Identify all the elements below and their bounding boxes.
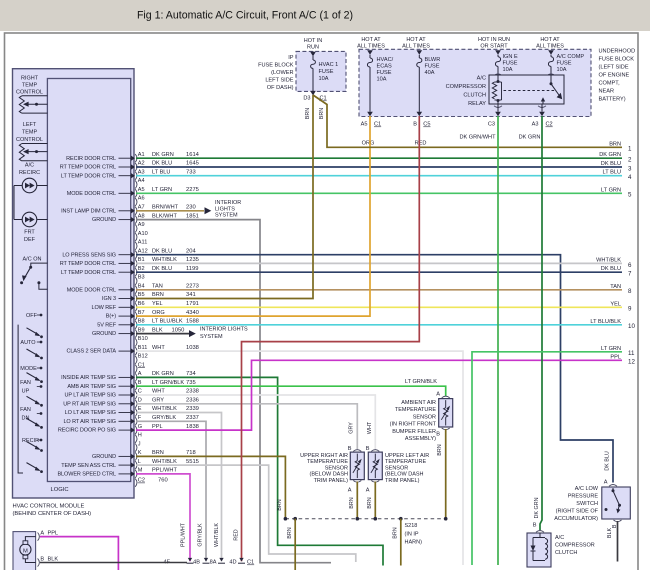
wire BRN upper left sensor to splice [374, 482, 376, 519]
module pin B10 [135, 338, 137, 346]
svg-text:BRN: BRN [367, 497, 373, 508]
module pin M PPL/WHT [131, 471, 135, 476]
splice junction dot x=445.7 [444, 517, 448, 521]
pin 8A end arrow [219, 558, 223, 562]
svg-text:A/C: A/C [555, 535, 564, 541]
svg-text:RECIR DOOR CTRL: RECIR DOOR CTRL [66, 156, 116, 162]
relay pin arc A3 [538, 106, 546, 108]
wire B7 ORG 4340 from HVAC/ECAS fuse [136, 116, 370, 316]
svg-text:HOT IN RUN: HOT IN RUN [478, 37, 510, 43]
svg-text:230: 230 [186, 205, 196, 211]
module pin B7 ORG 4340 [131, 313, 135, 318]
svg-text:CLUTCH: CLUTCH [555, 550, 577, 556]
module pin F GRY/BLK 2337 [131, 419, 135, 424]
svg-text:GRY/BLK: GRY/BLK [152, 415, 176, 421]
svg-text:B: B [413, 122, 417, 128]
svg-text:LT BLU: LT BLU [603, 170, 621, 176]
svg-text:(BELOW DASH: (BELOW DASH [385, 472, 424, 478]
svg-text:A1: A1 [138, 152, 145, 158]
svg-text:9: 9 [628, 306, 632, 313]
underhood block bottom pin arrow x=370 [367, 112, 373, 117]
svg-text:HVAC 1: HVAC 1 [319, 62, 339, 68]
indicator lamp A/C RECIRC [22, 178, 37, 193]
fuse HVAC 1 10A [312, 56, 314, 60]
wire B5 BRN 341 from IP fuse D3 [136, 95, 313, 299]
svg-text:UP RT AIR TEMP SIG: UP RT AIR TEMP SIG [63, 401, 116, 407]
svg-text:12: 12 [628, 359, 635, 366]
svg-text:LO LT AIR TEMP SIG: LO LT AIR TEMP SIG [65, 410, 116, 416]
svg-text:YEL: YEL [152, 301, 163, 307]
potentiometer left temp control [19, 144, 24, 161]
pin 8A tick [218, 562, 225, 564]
svg-text:E: E [138, 406, 142, 412]
switch A/C ON [31, 263, 48, 266]
svg-text:B11: B11 [138, 345, 148, 351]
svg-text:WHT: WHT [367, 421, 373, 434]
splice junction dot x=400.8 [399, 517, 403, 521]
svg-text:DN: DN [22, 416, 30, 422]
module pin A8 BLK/WHT 1851 [131, 217, 135, 222]
module pin A4 [135, 180, 137, 188]
svg-text:IGN 3: IGN 3 [102, 296, 116, 302]
svg-text:TEMPERATURE: TEMPERATURE [395, 407, 436, 413]
svg-text:1588: 1588 [186, 319, 199, 325]
svg-text:HOT AT: HOT AT [361, 37, 381, 43]
svg-text:WHT/BLK: WHT/BLK [152, 406, 177, 412]
svg-text:BRN: BRN [277, 499, 283, 510]
svg-text:DK BLU: DK BLU [152, 266, 172, 272]
svg-text:2336: 2336 [186, 398, 199, 404]
svg-text:LT BLU/BLK: LT BLU/BLK [590, 319, 621, 325]
wire A12 DK BLU 204 to low pressure switch [136, 255, 613, 483]
svg-text:OR START: OR START [480, 44, 508, 50]
wire BLK from low pressure switch [617, 521, 619, 562]
svg-text:3: 3 [628, 165, 632, 172]
svg-text:COMPRESSOR: COMPRESSOR [555, 543, 595, 549]
A/C compressor clutch box [527, 533, 551, 567]
module pin A11 [135, 242, 137, 250]
HVAC control module inner (logic) box [47, 79, 130, 482]
svg-text:LT GRN: LT GRN [152, 187, 172, 193]
svg-text:FUSE: FUSE [377, 70, 392, 76]
wire B1 WHT/BLK 1235 to circuit 6 [136, 262, 622, 264]
svg-text:(IN RIGHT FRONT: (IN RIGHT FRONT [390, 422, 437, 428]
svg-text:BLK/WHT: BLK/WHT [152, 213, 177, 219]
splice junction dot x=357.3 [356, 517, 360, 521]
module pin A3 LT BLU 733 [131, 173, 135, 178]
svg-text:COMPT,: COMPT, [599, 81, 621, 87]
svg-text:A3: A3 [532, 122, 539, 128]
A/C compressor clutch relay box [489, 75, 564, 104]
svg-text:ASSEMBLY): ASSEMBLY) [405, 436, 436, 442]
svg-text:A7: A7 [138, 205, 145, 211]
svg-text:C2: C2 [138, 478, 145, 484]
svg-text:BRN: BRN [392, 527, 398, 538]
blower motor M symbol [20, 544, 31, 555]
svg-text:WHT: WHT [152, 389, 165, 395]
svg-text:(LEFT SIDE: (LEFT SIDE [599, 65, 629, 71]
module pin A5 LT GRN 2275 [131, 191, 135, 196]
wire M PPL/WHT to pin 4F [136, 474, 190, 561]
wire PPL from blower motor [40, 537, 118, 570]
wire A8 BLK/WHT 1851 ground run [136, 220, 331, 563]
wire RED from BLWR fuse to pin 4D [242, 116, 420, 561]
svg-text:ALL TIMES: ALL TIMES [402, 44, 430, 50]
svg-text:B: B [138, 380, 142, 386]
svg-text:A10: A10 [138, 231, 148, 237]
wire A1 DK GRN 1614 to circuit 2 [136, 157, 622, 159]
wire B9 BLK 1050 to interior lights [136, 333, 189, 335]
svg-text:40A: 40A [425, 70, 435, 76]
svg-text:5: 5 [628, 192, 632, 199]
svg-text:G: G [138, 424, 142, 430]
splice junction dot x=375.3 [374, 517, 378, 521]
svg-text:L: L [138, 459, 141, 465]
svg-text:HVAC/: HVAC/ [377, 57, 394, 63]
svg-text:1: 1 [628, 146, 632, 153]
svg-text:734: 734 [186, 371, 196, 377]
svg-text:B2: B2 [138, 266, 145, 272]
wire BRN splice down left [294, 519, 296, 570]
svg-text:HOT AT: HOT AT [540, 37, 560, 43]
module pin A7 BRN/WHT 230 [131, 208, 135, 213]
svg-text:1038: 1038 [186, 345, 199, 351]
svg-text:FUSE BLOCK: FUSE BLOCK [599, 57, 635, 63]
svg-text:B1: B1 [138, 257, 145, 263]
lamp common bus [13, 186, 15, 220]
svg-text:B: B [533, 523, 537, 529]
relay bottom stub C3 [497, 104, 499, 112]
svg-text:10A: 10A [557, 67, 567, 73]
module pin H [135, 435, 137, 443]
svg-text:SENSOR: SENSOR [413, 414, 436, 420]
svg-text:B: B [366, 446, 370, 452]
splice junction dot x=285.4 [284, 517, 288, 521]
wire G PPL 1838 to circuit 12 [136, 360, 622, 430]
svg-text:1838: 1838 [186, 424, 199, 430]
svg-text:CONTROL: CONTROL [16, 137, 43, 143]
underhood fuse block (dashed box) [359, 49, 591, 116]
svg-text:WHT/BLK: WHT/BLK [596, 257, 621, 263]
svg-text:PPL: PPL [48, 531, 59, 537]
svg-text:ACCUMULATOR): ACCUMULATOR) [554, 516, 598, 522]
svg-text:DK GRN: DK GRN [599, 152, 621, 158]
wire B2 DK BLU 1199 to circuit 7 [136, 271, 622, 273]
relay switch [550, 75, 552, 83]
module pin B8 LT BLU/BLK 1588 [131, 322, 135, 327]
wire B4 TAN 2273 to circuit 8 [136, 289, 622, 291]
underhood block bottom pin arrow x=542 [539, 112, 545, 117]
pin 4F end arrow [188, 558, 192, 562]
svg-text:BLK: BLK [48, 556, 59, 562]
svg-text:BLWR: BLWR [425, 57, 441, 63]
svg-text:11: 11 [628, 350, 635, 357]
svg-text:LOW REF: LOW REF [92, 305, 117, 311]
svg-text:LEFT SIDE: LEFT SIDE [265, 78, 293, 84]
svg-text:MODE DOOR CTRL: MODE DOOR CTRL [67, 287, 116, 293]
svg-text:ALL TIMES: ALL TIMES [536, 44, 564, 50]
wire A3 LT BLU 733 to circuit 4 [136, 175, 622, 177]
svg-text:ORG: ORG [152, 310, 165, 316]
splice junction dot x=295.2 [293, 517, 297, 521]
svg-text:LT GRN/BLK: LT GRN/BLK [152, 380, 184, 386]
svg-text:733: 733 [186, 169, 196, 175]
svg-text:INST LAMP DIM CTRL: INST LAMP DIM CTRL [61, 208, 116, 214]
svg-text:LOGIC: LOGIC [51, 487, 69, 493]
svg-text:LT BLU/BLK: LT BLU/BLK [152, 319, 183, 325]
svg-text:YEL: YEL [610, 301, 621, 307]
feed arrow into IP fuse block [310, 52, 316, 57]
svg-text:RECIRC: RECIRC [19, 170, 40, 176]
svg-text:4B: 4B [193, 560, 200, 566]
svg-text:B7: B7 [138, 310, 145, 316]
svg-text:BRN: BRN [319, 108, 325, 119]
fuse IGN E 10A [497, 55, 499, 57]
svg-text:2275: 2275 [186, 187, 199, 193]
svg-text:A12: A12 [138, 248, 148, 254]
svg-text:1050: 1050 [172, 327, 185, 333]
svg-text:DK GRN: DK GRN [152, 371, 174, 377]
module pin C WHT 2338 [131, 392, 135, 397]
wire B LT GRN/BLK 735 to ambient sensor [136, 386, 446, 396]
svg-text:DK BLU: DK BLU [601, 161, 621, 167]
svg-text:CLASS 2 SER DATA: CLASS 2 SER DATA [66, 349, 116, 355]
svg-text:BLK: BLK [152, 327, 163, 333]
svg-text:IP: IP [288, 55, 294, 61]
svg-text:BRN: BRN [305, 108, 311, 119]
svg-text:NEAR: NEAR [599, 89, 615, 95]
relay coil [497, 75, 499, 82]
svg-text:UP: UP [22, 389, 30, 395]
svg-text:DEF: DEF [24, 237, 36, 243]
svg-text:DK GRN: DK GRN [534, 497, 540, 518]
pin 4F tick [187, 562, 194, 564]
svg-text:1614: 1614 [186, 152, 200, 158]
svg-text:A/C: A/C [25, 163, 34, 169]
svg-text:SENSOR: SENSOR [385, 465, 408, 471]
wire BRN upper right sensor to splice [356, 482, 358, 519]
feed arrow into underhood block x=370 [367, 50, 373, 55]
svg-text:735: 735 [186, 380, 196, 386]
svg-text:4D: 4D [229, 560, 236, 566]
svg-text:INSIDE AIR TEMP SIG: INSIDE AIR TEMP SIG [61, 375, 116, 381]
svg-text:RUN: RUN [307, 45, 319, 51]
svg-text:RECIR: RECIR [22, 438, 39, 444]
svg-text:BUMPER FILLER: BUMPER FILLER [392, 429, 436, 435]
svg-text:LT GRN: LT GRN [601, 346, 621, 352]
svg-text:INTERIOR: INTERIOR [215, 200, 241, 206]
wire DK GRN/WHT from relay C3 [497, 116, 499, 565]
svg-text:PRESSURE: PRESSURE [568, 494, 599, 500]
wire B6 YEL 1791 to circuit 9 [136, 306, 622, 308]
svg-text:SENSOR: SENSOR [325, 465, 348, 471]
svg-text:PPL/WHT: PPL/WHT [181, 522, 187, 547]
wire circuit 11 LT GRN [472, 352, 622, 565]
svg-text:CLUTCH: CLUTCH [463, 93, 486, 99]
IP block pin arrow [310, 91, 316, 96]
svg-text:M: M [23, 548, 28, 554]
svg-text:A5: A5 [138, 187, 145, 193]
svg-text:B10: B10 [138, 336, 148, 342]
svg-text:TEMP SEN ASS CTRL: TEMP SEN ASS CTRL [61, 463, 116, 469]
module pin A6 [135, 198, 137, 206]
svg-text:1791: 1791 [186, 301, 199, 307]
svg-text:LT GRN: LT GRN [601, 187, 621, 193]
pin 4B tick [203, 562, 210, 564]
svg-text:A2: A2 [138, 161, 145, 167]
relay dashed link [504, 90, 557, 92]
module pin C2 760 [135, 479, 137, 487]
svg-text:DK GRN: DK GRN [152, 152, 174, 158]
svg-text:B9: B9 [138, 327, 145, 333]
svg-text:DK BLU: DK BLU [604, 451, 610, 471]
svg-text:LO PRESS SENS SIG: LO PRESS SENS SIG [62, 252, 116, 258]
svg-text:J: J [138, 441, 141, 447]
svg-text:LT BLU: LT BLU [152, 169, 170, 175]
feed arrow into underhood block x=419.3 [417, 50, 423, 55]
svg-text:K: K [138, 450, 142, 456]
svg-text:TRIM PANEL): TRIM PANEL) [314, 478, 349, 484]
svg-text:TRIM PANEL): TRIM PANEL) [385, 478, 420, 484]
svg-text:D: D [138, 398, 142, 404]
wire DK GRN from relay A3 to clutch [540, 116, 542, 530]
svg-text:A/C COMP: A/C COMP [557, 54, 585, 60]
upper right air temperature sensor [350, 452, 364, 480]
svg-text:RECIRC DOOR PO SIG: RECIRC DOOR PO SIG [58, 428, 116, 434]
svg-text:CONTROL: CONTROL [16, 90, 43, 96]
module pin A DK GRN 734 [131, 375, 135, 380]
svg-text:HOT IN: HOT IN [304, 38, 323, 44]
svg-text:10A: 10A [503, 67, 513, 73]
svg-text:RELAY: RELAY [468, 101, 486, 107]
svg-text:A: A [366, 488, 370, 494]
svg-text:A: A [40, 531, 44, 537]
svg-text:GROUND: GROUND [92, 331, 116, 337]
svg-text:(BELOW DASH: (BELOW DASH [309, 472, 348, 478]
svg-text:B6: B6 [138, 301, 145, 307]
svg-text:2337: 2337 [186, 415, 199, 421]
svg-text:GRY/BLK: GRY/BLK [198, 523, 204, 547]
title bar [0, 0, 650, 31]
svg-text:WHT: WHT [152, 345, 165, 351]
svg-text:FRT: FRT [24, 230, 35, 236]
svg-text:MODE DOOR CTRL: MODE DOOR CTRL [67, 191, 116, 197]
svg-text:ALL TIMES: ALL TIMES [357, 44, 385, 50]
svg-text:B: B [348, 446, 352, 452]
svg-text:FUSE: FUSE [503, 61, 518, 67]
wire B8 LT BLU/BLK 1588 to circuit 10 [136, 324, 622, 326]
svg-text:A: A [604, 480, 608, 486]
module pin B1 WHT/BLK 1235 [131, 261, 135, 266]
svg-text:B8: B8 [138, 319, 145, 325]
svg-text:LT GRN/BLK: LT GRN/BLK [405, 379, 437, 385]
svg-text:COMPRESSOR: COMPRESSOR [446, 84, 486, 90]
wire A7 BRN/WHT 230 to interior lights [136, 210, 204, 212]
svg-text:(IN IP: (IN IP [405, 531, 419, 537]
svg-text:F: F [138, 415, 142, 421]
svg-text:GRY: GRY [349, 422, 355, 434]
svg-text:UP LT AIR TEMP SIG: UP LT AIR TEMP SIG [64, 393, 116, 399]
svg-text:SYSTEM: SYSTEM [200, 334, 223, 340]
svg-text:AMB AIR TEMP SIG: AMB AIR TEMP SIG [67, 384, 116, 390]
svg-text:H: H [138, 433, 142, 439]
svg-text:760: 760 [158, 478, 168, 484]
arrow to interior lights system (A7) [205, 207, 212, 214]
module pin L WHT/BLK 5515 [131, 462, 135, 467]
svg-text:GRY: GRY [152, 398, 164, 404]
module pin A2 DK BLU 1645 [131, 164, 135, 169]
fuse BLWR 40A [418, 55, 420, 58]
svg-text:PPL: PPL [610, 354, 621, 360]
feed arrow into underhood block x=551 [548, 50, 554, 55]
svg-text:DK BLU: DK BLU [152, 161, 172, 167]
fuse A/C COMP 10A [550, 55, 552, 57]
module pin B LT GRN/BLK 735 [131, 384, 135, 389]
svg-text:LIGHTS: LIGHTS [215, 206, 235, 212]
svg-text:TAN: TAN [610, 284, 621, 290]
module pin G PPL 1838 [131, 427, 135, 432]
svg-text:10: 10 [628, 323, 635, 330]
svg-text:D3: D3 [303, 96, 310, 102]
svg-text:LT TEMP DOOR CTRL: LT TEMP DOOR CTRL [61, 173, 116, 179]
svg-text:M: M [138, 468, 143, 474]
indicator lamp FRT DEF [22, 212, 37, 227]
wire A INSIDE AIR TEMP DK GRN 734 [136, 377, 383, 565]
svg-text:ECAS: ECAS [377, 64, 393, 70]
module pin A12 DK BLU 204 [131, 252, 135, 257]
svg-text:A4: A4 [138, 178, 145, 184]
svg-text:(LOWER: (LOWER [271, 70, 293, 76]
blower motor box [13, 532, 36, 570]
svg-text:FAN: FAN [20, 380, 31, 386]
svg-text:BRN/WHT: BRN/WHT [152, 205, 179, 211]
potentiometer right temp control [19, 96, 24, 113]
module pin B5 BRN 341 [131, 296, 135, 301]
underhood block bottom pin arrow x=498 [495, 112, 501, 117]
switch stack bus [18, 325, 23, 473]
svg-text:B12: B12 [138, 354, 148, 360]
module pin A9 [135, 224, 137, 232]
svg-text:RT TEMP DOOR CTRL: RT TEMP DOOR CTRL [60, 261, 116, 267]
svg-text:INTERIOR LIGHTS: INTERIOR LIGHTS [200, 327, 248, 333]
svg-text:C3: C3 [488, 122, 495, 128]
svg-text:RED: RED [233, 529, 239, 540]
svg-text:B(+): B(+) [106, 314, 116, 320]
wire C WHT 2338 to upper left sensor [136, 395, 375, 449]
svg-text:TEMPERATURE: TEMPERATURE [307, 459, 348, 465]
svg-text:2338: 2338 [186, 389, 199, 395]
svg-text:A: A [436, 392, 440, 398]
pin 4D tick [238, 562, 245, 564]
svg-text:2: 2 [628, 157, 632, 164]
wire A5 LT GRN 2275 to circuit 5 [136, 192, 622, 194]
svg-text:WHT/BLK: WHT/BLK [152, 459, 177, 465]
svg-text:C2: C2 [546, 122, 553, 128]
svg-text:A3: A3 [138, 169, 145, 175]
svg-text:B3: B3 [138, 275, 145, 281]
svg-text:A8: A8 [138, 213, 145, 219]
svg-text:204: 204 [186, 248, 196, 254]
svg-text:RED: RED [415, 141, 427, 147]
svg-text:HARN): HARN) [405, 540, 423, 546]
wire L WHT/BLK 5515 [136, 465, 356, 562]
wire K BRN 718 to splice S218 [136, 456, 285, 518]
svg-text:A6: A6 [138, 196, 145, 202]
svg-text:RT TEMP DOOR CTRL: RT TEMP DOOR CTRL [60, 165, 116, 171]
svg-text:10A: 10A [319, 76, 329, 82]
module pin K BRN 718 [131, 454, 135, 459]
module pin B11 WHT 1038 [131, 348, 135, 353]
